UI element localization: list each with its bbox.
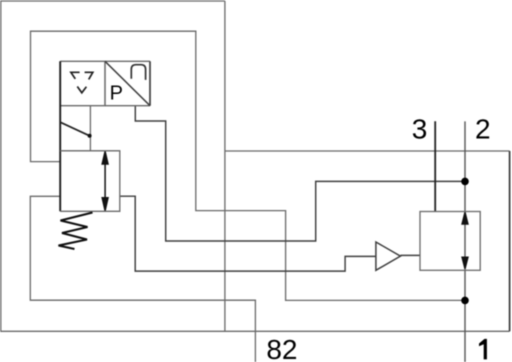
wire: pilot vertical to valve top [89, 106, 91, 151]
wire: amplifier output to right valve [400, 254, 420, 256]
node A: top junction dot [461, 178, 469, 186]
right proportional valve V2 [420, 212, 480, 271]
frame: right enclosure right edge [509, 151, 511, 331]
valve V1 double arrow [102, 152, 108, 211]
wire: P-sensor output to top node [135, 106, 465, 241]
P square diagonal [105, 61, 150, 105]
arc glyph in P square [131, 65, 145, 80]
wire: valve left upper port loop to bottom node [31, 31, 466, 300]
wire: valve right port to amplifier input [120, 196, 376, 271]
spring under valve V1 [59, 213, 93, 250]
svg-text:2: 2 [475, 113, 491, 144]
wire: port 2 / port 1 line [464, 121, 466, 362]
dashed triangle glyph [71, 72, 93, 93]
svg-text:82: 82 [266, 334, 297, 362]
dark left vertical: square left edge, connector, valve left edge [59, 61, 61, 211]
amplifier U2 (triangle) [376, 242, 401, 270]
pressure sensor P square U1 [105, 61, 150, 105]
label 1 (drawn glyph, Arial-style without foot) [479, 339, 487, 360]
valve V2 double arrow heads [462, 212, 468, 268]
svg-text:3: 3 [412, 113, 428, 144]
proportional valve V1 (left box, top/right/bottom edges) [60, 151, 120, 212]
wire: valve left lower port to port 82 [30, 196, 255, 362]
lever diagonal with pivot dot [60, 122, 89, 136]
sensor indicator square [60, 61, 105, 105]
P square right edge [149, 61, 151, 105]
node B: bottom junction dot [461, 297, 469, 305]
svg-text:P: P [110, 82, 123, 104]
wire: port 3 line [434, 121, 436, 211]
frame: right enclosure top edge [225, 150, 510, 152]
